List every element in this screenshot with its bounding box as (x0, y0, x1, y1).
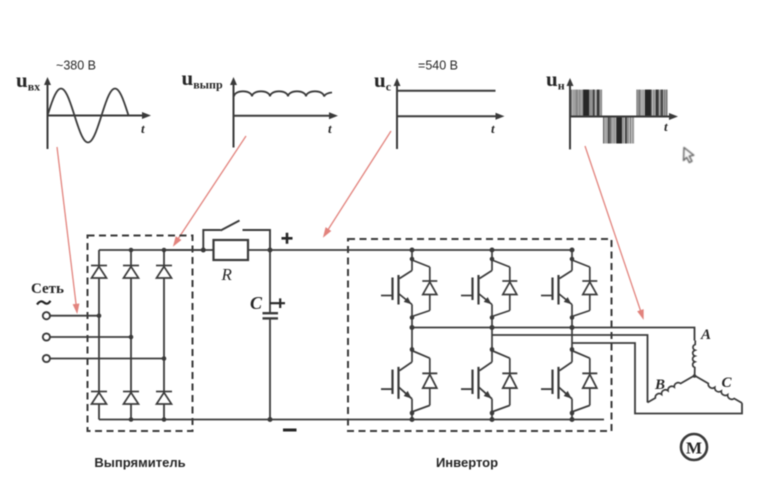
node: phase A crossing col3 (570, 325, 575, 330)
junction node phase 3 (162, 356, 167, 361)
bridge column 1 wire (98, 250, 100, 420)
diode VD5 (bottom) (123, 392, 139, 405)
input terminal 1 (43, 312, 50, 319)
node: bottom rail junction column 3 (570, 417, 575, 422)
diode VD4 (bottom) (91, 392, 107, 405)
IGBT Q5 bottom cell with freewheel diode (461, 347, 517, 415)
phase wire 2 from terminal to bridge (50, 336, 131, 338)
IGBT Q4 bottom cell with freewheel diode (381, 347, 437, 415)
stator winding phase B coil (648, 376, 695, 403)
phase wire 3 from terminal to bridge (50, 358, 164, 360)
wire: column 2 top stub (491, 250, 493, 259)
svg-text:t: t (328, 121, 332, 136)
capacitor C upper lead (269, 250, 271, 312)
mouse cursor (684, 148, 694, 163)
svg-text:Сеть: Сеть (31, 281, 64, 297)
bridge column 3 wire (163, 250, 165, 420)
wire: column 1 bottom stub (411, 413, 413, 420)
diode VD6 (bottom) (156, 392, 172, 405)
junction node phase 1 (97, 313, 102, 318)
wire: column 2 midpoint link (491, 318, 493, 350)
bottom bus junction dots (129, 417, 134, 422)
svg-text:uс: uс (374, 68, 392, 94)
capacitor C lower lead (269, 320, 271, 421)
node: phase A crossing col2 (490, 325, 495, 330)
rectifier top bus (99, 249, 203, 251)
svg-text:t: t (664, 119, 668, 134)
node: top rail junction column 2 (490, 248, 495, 253)
node: top rail junction column 3 (570, 248, 575, 253)
svg-text:t: t (141, 121, 145, 136)
svg-text:C: C (722, 375, 733, 391)
junction node phase 2 (129, 335, 134, 340)
svg-text:uвыпр: uвыпр (182, 66, 223, 92)
svg-text:~380 В: ~380 В (56, 59, 96, 73)
capacitor C plates (263, 312, 279, 314)
waveform plot 4: PWM output voltage U_n (546, 67, 678, 149)
wire: DC+ rail from rectifier to R (164, 249, 214, 251)
IGBT Q6 bottom cell with freewheel diode (541, 347, 597, 415)
minus sign on DC- rail (283, 429, 297, 432)
node: capacitor top junction (268, 248, 273, 253)
inverter dashed box (348, 239, 612, 431)
wire: column 1 top stub (411, 250, 413, 259)
node: bottom rail junction column 1 (410, 417, 415, 422)
svg-text:=540 В: =540 В (418, 59, 458, 73)
red annotation arrow from plot 3 to DC bus (324, 131, 391, 236)
wire: phase B output line (492, 335, 648, 403)
stator winding phase C coil (695, 376, 743, 404)
node: top rail junction column 1 (410, 248, 415, 253)
bridge column 2 wire (130, 250, 132, 420)
node: phase tap column 3 (570, 325, 575, 330)
node: phase tap column 1 (410, 325, 415, 330)
input terminal 3 (43, 355, 50, 362)
bypass switch S1 (203, 221, 270, 251)
svg-text:R: R (221, 265, 233, 284)
IGBT Q2 top cell with freewheel diode (461, 257, 517, 320)
rectifier dashed box (88, 236, 193, 432)
plus sign on DC+ rail (282, 233, 293, 244)
svg-text:uвх: uвх (16, 68, 40, 94)
wire: column 2 bottom stub (491, 413, 493, 420)
waveform plot 3: DC link voltage U_c (374, 59, 505, 150)
diode VD2 (top) (123, 266, 139, 279)
node: phase tap column 2 (490, 325, 495, 330)
node: capacitor bottom junction (268, 417, 273, 422)
svg-text:C: C (250, 293, 263, 313)
top bus junction dots (129, 248, 134, 253)
svg-text:uн: uн (546, 67, 565, 93)
diode VD3 (top) (156, 266, 172, 279)
wire: column 3 midpoint link (571, 318, 573, 350)
diode VD1 (top) (91, 266, 107, 279)
wire: DC- bottom rail (99, 419, 604, 421)
IGBT Q1 top cell with freewheel diode (381, 257, 437, 320)
waveform plot 1: input voltage U_vx sine (16, 59, 151, 150)
phase wire 1 from terminal to bridge (50, 315, 99, 317)
red annotation arrow from plot 1 to mains input (57, 147, 79, 312)
wire: column 3 top stub (571, 250, 573, 259)
node: bottom rail junction column 2 (490, 417, 495, 422)
wire: DC+ rail from R to inverter (248, 249, 572, 251)
motor M circle (681, 434, 707, 460)
resistor R box (214, 240, 249, 260)
svg-text:Выпрямитель: Выпрямитель (94, 455, 185, 470)
IGBT Q3 top cell with freewheel diode (541, 257, 597, 320)
input terminal 2 (43, 333, 50, 340)
wire: column 1 midpoint link (411, 318, 413, 350)
svg-text:B: B (654, 377, 665, 393)
node: switch left junction (201, 248, 206, 253)
wire: phase A output line (412, 328, 695, 341)
svg-text:t: t (491, 121, 495, 136)
red annotation arrow from plot 4 to motor leads (585, 146, 643, 318)
wire: column 3 bottom stub (571, 413, 573, 420)
waveform plot 2: rectified voltage U_vypr ripple (182, 66, 339, 148)
svg-text:M: M (686, 439, 702, 458)
stator winding phase A coil (693, 341, 696, 377)
svg-text:Инвертор: Инвертор (436, 455, 498, 470)
plus sign at capacitor (270, 298, 285, 308)
red annotation arrow from plot 2 to rectifier output (174, 136, 246, 245)
wire: phase C output line (572, 343, 742, 414)
svg-text:A: A (700, 327, 711, 343)
node: star point (693, 374, 697, 378)
AC symbol ~ (37, 301, 51, 305)
